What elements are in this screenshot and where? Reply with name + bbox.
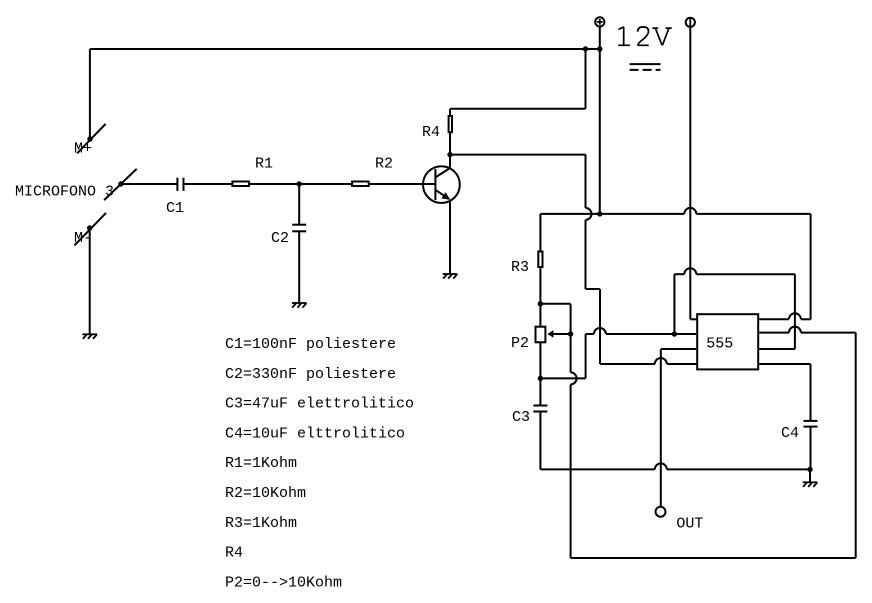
- svg-text:R4: R4: [422, 124, 440, 141]
- wire 555 pin R1 with hop: [759, 318, 789, 320]
- capacitor C3: [533, 405, 547, 407]
- resistor R4: [449, 116, 452, 132]
- node R3 bottom: [538, 301, 543, 306]
- svg-text:R1: R1: [255, 155, 273, 172]
- wire trigger line to 555 pin L2 with hop over x600: [586, 333, 594, 335]
- terminal minus 12V: [686, 18, 695, 27]
- wire loop right down: [794, 274, 796, 349]
- node collector R4: [447, 152, 452, 157]
- wire +12V rail with hop over minus line: [540, 213, 684, 215]
- wire M- drop: [89, 228, 91, 334]
- wire x585 down with hop over +12 rail: [585, 155, 587, 208]
- svg-text:OUT: OUT: [676, 515, 703, 532]
- svg-text:C4: C4: [781, 425, 799, 442]
- wiper arrow: [547, 330, 553, 337]
- wire C3 top: [539, 378, 541, 405]
- wire R4 top: [449, 109, 451, 116]
- terminal plus 12V: [595, 17, 604, 26]
- node M+: [77, 124, 106, 154]
- ground under emitter: [443, 274, 458, 279]
- wire P2 bottom: [539, 342, 541, 378]
- svg-text:C1=100nF poliestere: C1=100nF poliestere: [225, 336, 396, 353]
- node top rail 12V: [597, 46, 602, 51]
- ground under C2: [292, 303, 307, 308]
- svg-text:MICROFONO 3: MICROFONO 3: [15, 184, 114, 201]
- wire into P2 top: [539, 304, 541, 326]
- wire C2 top: [298, 184, 300, 225]
- wire R2 to base: [370, 183, 436, 185]
- ground under M-: [82, 334, 97, 339]
- wire node to R2: [299, 183, 352, 185]
- wire loop up: [673, 274, 675, 334]
- wire C4 bottom: [810, 427, 812, 470]
- capacitor C1: [176, 178, 178, 191]
- wire C3 bottom: [539, 412, 541, 470]
- svg-text:C1: C1: [166, 200, 184, 217]
- wire 555 pin R4 to C4: [759, 363, 810, 365]
- potentiometer P2: [536, 327, 546, 343]
- wire top rail: [90, 48, 600, 50]
- IC 555 box: [697, 314, 758, 369]
- resistor R1: [232, 182, 249, 187]
- wire node to wiper column: [540, 303, 570, 305]
- node M-: [74, 213, 106, 246]
- svg-text:C4=10uF elttrolitico: C4=10uF elttrolitico: [225, 425, 405, 442]
- node ground C4: [807, 467, 812, 472]
- wire loop top with hop over minus line: [674, 273, 684, 275]
- node top rail R4: [583, 46, 588, 51]
- wire ground line with hop over OUT: [540, 468, 654, 470]
- capacitor C2: [292, 224, 306, 226]
- svg-text:C3: C3: [512, 409, 530, 426]
- wire wiper column down with hop: [570, 334, 572, 372]
- svg-text:C2=330nF poliestere: C2=330nF poliestere: [225, 366, 396, 383]
- wire C2 bottom: [298, 231, 300, 303]
- svg-text:R2=10Kohm: R2=10Kohm: [225, 485, 306, 502]
- wire loop to 555 pin R3: [759, 348, 795, 350]
- wire M+ drop: [89, 49, 91, 139]
- wire 555 pin R2 with hop: [759, 332, 789, 334]
- label 12V: [618, 27, 672, 45]
- wire to 555 pin L4 with hop over OUT line: [600, 363, 655, 365]
- wire ground stub: [809, 469, 811, 482]
- wire P2 bottom to x585: [540, 377, 585, 379]
- svg-text:R3=1Kohm: R3=1Kohm: [225, 515, 297, 532]
- wire bottom rail: [571, 557, 856, 559]
- wire collector to right: [450, 154, 586, 156]
- resistor R2: [352, 182, 369, 187]
- battery DC symbol: [630, 63, 661, 65]
- svg-text:C3=47uF elettrolitico: C3=47uF elettrolitico: [225, 396, 414, 413]
- resistor R3: [538, 252, 542, 268]
- wire 555 pin L1 stub: [690, 318, 697, 320]
- terminal OUT: [656, 507, 666, 517]
- svg-text:C2: C2: [271, 230, 289, 247]
- svg-text:555: 555: [706, 336, 733, 353]
- svg-text:P2=0-->10Kohm: P2=0-->10Kohm: [225, 574, 342, 591]
- wire right column down: [855, 333, 857, 558]
- ground right: [803, 482, 818, 487]
- wire mic to C1: [121, 183, 177, 185]
- wire +12V vertical: [599, 26, 601, 214]
- svg-text:R4: R4: [225, 545, 243, 562]
- node C2 junction: [297, 181, 302, 186]
- wire R1 to node: [250, 183, 299, 185]
- transistor Q1: [423, 166, 460, 203]
- node pin L2: [672, 331, 677, 336]
- node +12V rail: [597, 211, 602, 216]
- node P2 bottom: [538, 376, 543, 381]
- node wiper: [568, 331, 573, 336]
- wire collector up / R4 bottom: [449, 133, 451, 168]
- wire C1 to R1: [184, 183, 233, 185]
- svg-text:P2: P2: [511, 335, 529, 352]
- node microphone input: [104, 169, 137, 200]
- wire R3 top: [539, 214, 541, 251]
- svg-text:R1=1Kohm: R1=1Kohm: [225, 455, 297, 472]
- svg-text:M+: M+: [74, 141, 92, 158]
- wire emitter down: [449, 200, 451, 274]
- svg-text:R2: R2: [375, 155, 393, 172]
- wire rail to 555 pin R1: [810, 214, 812, 319]
- wire jog to x600: [586, 288, 601, 290]
- wire R3 bottom: [539, 268, 541, 304]
- svg-text:M-: M-: [74, 230, 92, 247]
- wire minus vertical: [689, 27, 691, 320]
- svg-text:R3: R3: [511, 259, 529, 276]
- capacitor C4: [804, 420, 818, 422]
- wire 555 pin L3 to OUT: [661, 348, 696, 350]
